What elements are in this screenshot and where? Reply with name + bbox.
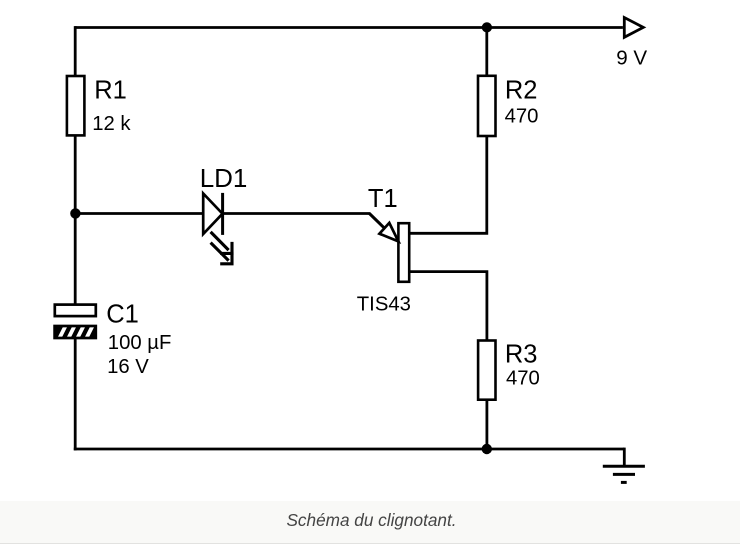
wire R3 to bottom rail [485,400,488,451]
ground symbol [603,466,645,482]
svg-text:9 V: 9 V [616,47,647,70]
node junction dot top [482,22,492,32]
wire right rail top segment [485,26,488,76]
transistor Q1 (UJT T1) base bar [398,223,409,282]
wire R2 to T1 base B2 lead [409,136,487,233]
capacitor C1 bottom plate [55,325,96,339]
wire top V+ rail [75,26,623,29]
svg-text:R2: R2 [505,77,538,105]
svg-text:R3: R3 [505,341,538,369]
caption bar [0,501,740,544]
caption text [2,512,740,529]
svg-text:TIS43: TIS43 [357,293,411,315]
LED LD1 emission arrow 2 [211,243,232,264]
node junction dot left [70,208,80,218]
LED LD1 cathode bar [221,193,224,235]
wire emitter diagonal of T1 [369,214,384,229]
wire T1 base B1 lead to R3 [409,272,487,341]
svg-text:16 V: 16 V [107,356,149,378]
svg-text:C1: C1 [106,301,139,329]
power arrow 9V [624,18,643,38]
svg-text:470: 470 [505,106,539,128]
transistor T1 emitter arrowhead [379,223,398,242]
wire left rail R1 to C1 [74,135,77,305]
svg-text:12 k: 12 k [92,113,131,135]
wire left rail C1 to bottom [74,338,77,451]
node junction dot bottom [482,444,492,454]
LED LD1 triangle [203,194,222,235]
capacitor C1 top plate [55,305,96,317]
resistor R3 [478,341,495,400]
wire mid net right of LD1 [223,212,371,215]
svg-text:470: 470 [506,368,540,390]
resistor R1 [67,76,85,135]
wire mid net left of LD1 [75,212,204,215]
svg-text:T1: T1 [368,185,398,213]
svg-text:100 µF: 100 µF [108,332,172,354]
wire ground stub [623,448,626,467]
wire bottom ground rail [74,448,625,451]
svg-text:R1: R1 [94,76,127,104]
LED LD1 emission arrow 1 [211,232,232,254]
svg-text:LD1: LD1 [200,163,248,193]
wire left rail top segment [74,26,77,76]
resistor R2 [478,76,496,136]
